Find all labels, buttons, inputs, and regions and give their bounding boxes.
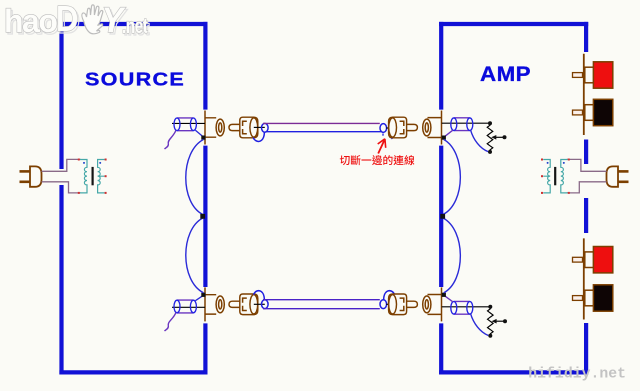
chassis ground dot (amp): [440, 214, 445, 219]
shield arc over PL3 (connected): [254, 291, 265, 300]
RCA male plug PL4 (bottom cable, amp end): [389, 294, 418, 315]
speaker post SP1- (black): [573, 99, 613, 125]
ground link cylinder-to-jack (source bottom): [195, 295, 203, 300]
chassis ground dot (source): [200, 214, 205, 219]
AC power plug P2 (amp side): [607, 166, 619, 186]
svg-text:SOURCE: SOURCE: [85, 70, 185, 90]
haoDIY.net watermark logo: [4, 0, 150, 42]
annotation text: cut the connection on one side: [340, 155, 415, 165]
power wires P2 to T2: [567, 159, 607, 171]
cable end circle at PL3: [262, 300, 269, 309]
chassis ground wire J3-J4 (amp): [443, 140, 460, 293]
annotation arrow pointing at cut shield: [378, 141, 384, 154]
shield arc over PL4 (connected): [384, 291, 395, 300]
junction dot at J1 shell: [201, 136, 205, 140]
source chassis box: [59, 22, 207, 375]
RCA output jack J1 (source top): [205, 111, 224, 145]
junction dot at J3 shell: [442, 136, 446, 140]
speaker post SP2+ (red): [573, 247, 613, 273]
RCA input jack J4 (amp bottom): [423, 287, 442, 321]
junction dot at J4 shell: [442, 293, 446, 297]
speaker post SP1+ (red): [573, 62, 613, 88]
AC power plug P1 (source side): [30, 166, 42, 186]
leftover shield stub at PL2: [391, 138, 392, 140]
cable end circle at PL4: [380, 300, 387, 309]
shielded cable segment inside amp (top): [454, 117, 470, 119]
center conductor stub at PL2: [386, 127, 393, 129]
svg-text:.net: .net: [122, 13, 148, 37]
junction dot at J2 shell: [201, 293, 205, 297]
svg-text:D: D: [56, 0, 78, 40]
bottom cable shield line: [263, 308, 380, 310]
svg-text:hao: hao: [4, 3, 57, 39]
top cable signal line: [263, 122, 380, 124]
volume pot VR2 (amp bottom): [488, 305, 508, 338]
shield arc at PL1 (connected): [253, 133, 264, 142]
svg-text:AMP: AMP: [480, 61, 531, 85]
bottom cable signal line: [263, 299, 380, 301]
amplifier chassis box: [439, 22, 588, 375]
center conductor into amp (top): [442, 122, 490, 124]
center conductor stub at PL4: [386, 303, 393, 305]
shield return curve (amp top): [471, 130, 489, 152]
top cable shield line (blue, cut at amp end): [266, 131, 382, 133]
RCA male plug PL1 (top cable, source end): [229, 117, 258, 138]
shielded cable segment inside source (bottom): [172, 306, 205, 308]
svg-text:hifidiy.net: hifidiy.net: [528, 366, 626, 382]
ground link cylinder-to-jack (source top): [195, 130, 203, 137]
cable end circle at PL2 (cut shield): [380, 124, 387, 133]
speaker terminal panel (top): [583, 54, 585, 135]
RCA male plug PL2 (top cable, amp end): [389, 117, 418, 138]
power transformer T2 (amp): [541, 159, 570, 194]
shield pigtail jack-to-cylinder (amp top): [444, 130, 453, 137]
center conductor into amp (bottom): [442, 306, 491, 308]
shield pigtail (source bottom): [165, 313, 176, 331]
shielded cable segment inside source (top): [172, 122, 205, 124]
volume pot VR1 (amp top): [487, 121, 506, 154]
speaker post SP2- (black): [573, 285, 613, 311]
center conductor stub at PL3: [254, 303, 265, 305]
power transformer T1 (source): [78, 159, 107, 194]
RCA male plug PL3 (bottom cable, source end): [229, 294, 258, 315]
RCA input jack J3 (amp top): [423, 111, 442, 145]
speaker terminal panel (bottom): [583, 238, 585, 319]
cable end circle at PL1: [262, 123, 269, 132]
shield pigtail jack-to-cylinder (amp bottom): [444, 296, 453, 302]
chassis ground wire J1-J2 (source): [186, 140, 204, 293]
shield pigtail (source top): [165, 130, 176, 149]
RCA output jack J2 (source bottom): [205, 287, 224, 321]
power wires P1 to T1: [42, 159, 81, 171]
center conductor stub at PL1: [254, 126, 265, 128]
shield return curve (amp bottom): [471, 313, 489, 335]
hand glyph in logo: [82, 5, 103, 34]
shielded cable segment inside amp (bottom): [454, 300, 470, 302]
